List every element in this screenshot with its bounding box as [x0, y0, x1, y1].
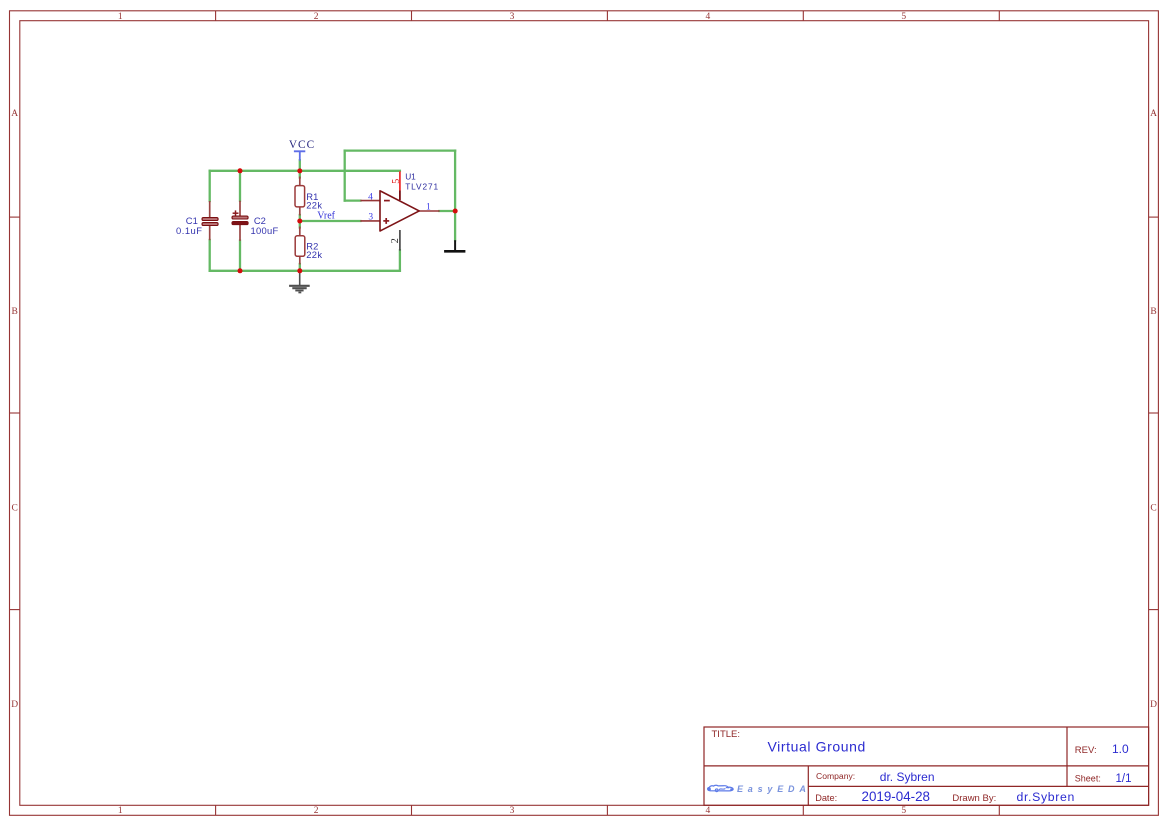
- wire feedback top horizontal: [345, 149, 455, 151]
- svg-text:TLV271: TLV271: [405, 182, 439, 192]
- wire C2 branch lower: [239, 241, 241, 271]
- svg-text:D: D: [1150, 700, 1157, 710]
- svg-text:5: 5: [391, 179, 402, 184]
- svg-text:Virtual Ground: Virtual Ground: [768, 738, 866, 754]
- svg-text:22k: 22k: [306, 200, 322, 211]
- junction VCC/R1: [297, 168, 302, 173]
- resistor R1: [295, 177, 305, 216]
- svg-text:B: B: [12, 307, 18, 317]
- minus mark: [384, 200, 390, 202]
- svg-text:REV:: REV:: [1075, 745, 1097, 756]
- junction C2 top: [238, 168, 243, 173]
- wire bottom rail: [210, 270, 400, 272]
- svg-text:TITLE:: TITLE:: [712, 729, 741, 740]
- wire left branch lower (from C1): [209, 240, 211, 271]
- svg-text:1: 1: [426, 203, 431, 213]
- svg-text:4: 4: [706, 806, 711, 816]
- wire output segment: [439, 210, 455, 212]
- svg-text:3: 3: [368, 213, 373, 223]
- svg-text:3: 3: [510, 12, 515, 22]
- op-amp U1: [360, 171, 439, 250]
- TITLE BLOCK: [704, 727, 1149, 805]
- svg-text:2: 2: [314, 12, 319, 22]
- svg-text:Date:: Date:: [815, 793, 837, 803]
- wire R1 top stub: [299, 171, 301, 178]
- pin 1 lead (output): [419, 210, 439, 212]
- wire left branch upper (to C1): [209, 171, 211, 201]
- svg-text:1.0: 1.0: [1112, 742, 1129, 756]
- SCHEMATIC: [176, 139, 465, 292]
- svg-text:22k: 22k: [306, 249, 322, 260]
- svg-text:Drawn By:: Drawn By:: [952, 793, 996, 804]
- svg-text:Vref: Vref: [317, 210, 335, 221]
- wire C2 branch upper: [239, 171, 241, 201]
- pin 5 lead (V+): [399, 171, 401, 190]
- op-amp triangle body: [380, 191, 419, 231]
- svg-text:B: B: [1150, 307, 1156, 317]
- svg-text:0.1uF: 0.1uF: [176, 225, 202, 236]
- svg-text:2: 2: [314, 806, 319, 816]
- svg-text:Sheet:: Sheet:: [1075, 774, 1101, 784]
- svg-text:D: D: [11, 700, 18, 710]
- capacitor C2 (polarized): [232, 201, 248, 241]
- plus mark: [383, 220, 389, 222]
- junction output node: [453, 209, 458, 214]
- svg-text:4: 4: [368, 192, 373, 202]
- wire VCC top rail: [210, 170, 400, 172]
- svg-text:dr.Sybren: dr.Sybren: [1017, 790, 1075, 804]
- wire R2 bottom stub: [299, 264, 301, 271]
- pin 3 lead (non-inverting): [360, 220, 380, 222]
- svg-text:1/1: 1/1: [1116, 773, 1132, 785]
- power flag VCC: [289, 139, 315, 160]
- svg-text:Company:: Company:: [816, 771, 855, 781]
- ground (earth style, under R2): [289, 271, 310, 293]
- junction R2 bottom: [297, 268, 302, 273]
- svg-text:C: C: [1150, 504, 1156, 514]
- ground (bar style, at op-amp output): [444, 240, 465, 251]
- svg-text:U1: U1: [405, 171, 416, 181]
- wire Vref horizontal: [300, 220, 361, 222]
- wire VCC flag stub: [299, 160, 301, 171]
- svg-text:A: A: [11, 109, 18, 119]
- junction Vref node: [297, 219, 302, 224]
- wire output to ground: [454, 211, 456, 240]
- junction C2 bottom: [238, 268, 243, 273]
- wire R1 bottom stub: [299, 215, 301, 221]
- wire R2 top stub: [299, 221, 301, 228]
- resistor R2: [295, 227, 305, 265]
- svg-text:2019-04-28: 2019-04-28: [862, 789, 931, 804]
- svg-text:EasyEDA: EasyEDA: [737, 784, 811, 794]
- svg-text:4: 4: [706, 12, 711, 22]
- svg-text:1: 1: [118, 12, 123, 22]
- svg-text:5: 5: [901, 12, 906, 22]
- svg-text:A: A: [1150, 109, 1157, 119]
- svg-text:5: 5: [901, 806, 906, 816]
- svg-text:3: 3: [510, 806, 515, 816]
- wire op-amp pin2 drop: [399, 250, 401, 270]
- capacitor C1: [202, 201, 218, 240]
- pin 2 lead (V-): [399, 230, 401, 251]
- svg-text:1: 1: [118, 806, 123, 816]
- svg-text:C: C: [12, 504, 18, 514]
- wire feedback left vertical: [344, 151, 346, 201]
- svg-text:2: 2: [390, 238, 401, 243]
- pin 4 lead (inverting): [360, 200, 380, 202]
- svg-text:dr. Sybren: dr. Sybren: [880, 770, 935, 784]
- wire feedback right vertical: [454, 151, 456, 211]
- svg-text:100uF: 100uF: [251, 225, 279, 236]
- wire feedback to pin4: [345, 199, 361, 201]
- svg-text:VCC: VCC: [289, 139, 315, 151]
